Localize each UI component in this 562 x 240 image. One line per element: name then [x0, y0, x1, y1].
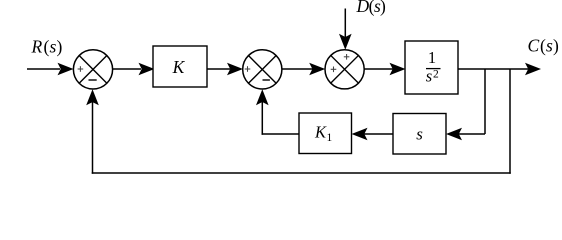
gain block K: [153, 46, 207, 87]
svg-text:s: s: [50, 37, 57, 57]
wire: D(s) input down into summer S3: [339, 9, 352, 50]
summing junction S2: [243, 50, 282, 89]
wire: R(s) input into summer S1: [27, 63, 74, 75]
wire: outer feedback bottom run: [92, 172, 511, 174]
svg-text:K: K: [314, 123, 327, 142]
svg-text:): ): [553, 36, 559, 56]
S2 minus sign (bottom input): [263, 79, 270, 81]
svg-text:2: 2: [433, 69, 439, 81]
wire: block K1 output up into summer S2 minus input: [256, 89, 299, 135]
svg-text:C: C: [528, 36, 540, 56]
svg-text:s: s: [546, 36, 553, 56]
S3 plus sign (left input): [331, 67, 337, 73]
wire: branch node down to block s (inner feedback tap): [446, 69, 485, 140]
wire: summer S1 output to gain block K: [113, 63, 155, 75]
svg-text:1: 1: [327, 132, 333, 144]
S3 plus sign (top input): [344, 54, 350, 60]
summing junction S1: [73, 50, 112, 89]
node D(s) disturbance label: [356, 0, 387, 16]
svg-text:s: s: [416, 124, 423, 143]
svg-text:R: R: [31, 37, 43, 57]
plant block 1/s^2: [405, 41, 458, 94]
S1 plus sign (left input): [78, 66, 84, 72]
svg-text:1: 1: [428, 48, 436, 67]
svg-text:D: D: [356, 0, 370, 16]
wire: block s output to block K1: [352, 128, 394, 141]
S1 minus sign (bottom input): [89, 79, 97, 81]
S2 plus sign (left input): [245, 66, 251, 72]
svg-text:K: K: [172, 57, 186, 77]
svg-text:s: s: [426, 67, 432, 86]
wire: outer feedback up into summer S1 minus input: [86, 89, 99, 173]
wire: plant output to C(s) with branch node: [458, 63, 541, 75]
wire: outer feedback tap down from output line: [509, 69, 511, 174]
wire: summer S2 output to summer S3: [282, 63, 325, 75]
node C(s) output label: [528, 36, 560, 56]
summing junction S3: [325, 50, 364, 89]
feedback block K1: [299, 113, 352, 154]
wire: summer S3 output to plant block 1/s^2: [364, 63, 405, 75]
svg-text:): ): [380, 0, 386, 16]
wire: block K output to summer S2: [207, 63, 243, 75]
feedback block s: [393, 114, 446, 155]
svg-text:): ): [57, 37, 63, 57]
